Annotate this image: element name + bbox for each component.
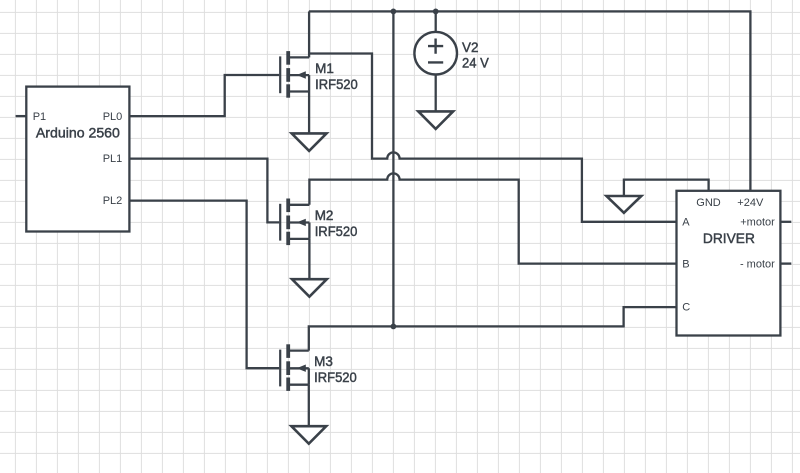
svg-text:PL0: PL0	[103, 111, 123, 123]
svg-text:M1: M1	[315, 61, 334, 76]
svg-text:Arduino 2560: Arduino 2560	[36, 125, 120, 140]
svg-text:+motor: +motor	[740, 217, 775, 229]
svg-text:IRF520: IRF520	[315, 224, 358, 239]
svg-text:24 V: 24 V	[462, 56, 489, 71]
svg-text:B: B	[682, 258, 689, 270]
svg-text:P1: P1	[33, 111, 46, 123]
svg-text:IRF520: IRF520	[314, 370, 357, 385]
svg-text:M3: M3	[314, 354, 333, 369]
svg-text:A: A	[682, 217, 690, 229]
svg-text:C: C	[682, 302, 690, 314]
svg-text:DRIVER: DRIVER	[703, 230, 755, 246]
svg-text:+24V: +24V	[737, 197, 764, 209]
svg-text:GND: GND	[696, 197, 721, 209]
svg-text:V2: V2	[462, 40, 479, 55]
svg-text:M2: M2	[315, 208, 334, 223]
svg-text:PL1: PL1	[103, 153, 123, 165]
svg-text:IRF520: IRF520	[315, 77, 358, 92]
svg-text:PL2: PL2	[103, 195, 123, 207]
svg-text:- motor: - motor	[740, 258, 775, 270]
